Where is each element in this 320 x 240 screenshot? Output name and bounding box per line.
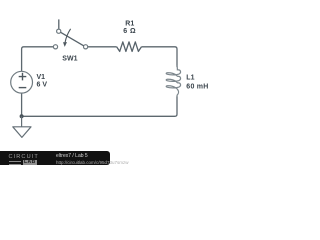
wire: resistor R1 right to inductor L1 top	[142, 47, 178, 67]
svg-text:60 mH: 60 mH	[186, 84, 208, 91]
svg-text:6 V: 6 V	[37, 82, 48, 89]
junction: bottom-left node	[20, 114, 24, 118]
wire: V1 bottom to junction	[21, 93, 23, 116]
voltage source V1	[11, 71, 33, 93]
svg-text:6 Ω: 6 Ω	[123, 28, 136, 35]
wire: V1 top to switch left terminal	[22, 47, 54, 71]
svg-text:SW1: SW1	[62, 55, 77, 62]
ground	[13, 116, 31, 137]
switch SW1	[53, 19, 87, 49]
resistor R1	[117, 42, 142, 52]
CircuitLab watermark	[0, 151, 110, 165]
svg-text:L1: L1	[186, 75, 194, 82]
svg-text:R1: R1	[125, 20, 134, 27]
wire: switch right terminal to resistor R1 left	[88, 46, 117, 48]
wire: inductor L1 bottom to bottom rail to junction	[22, 97, 177, 117]
svg-text:V1: V1	[37, 74, 46, 81]
inductor L1	[166, 65, 180, 96]
